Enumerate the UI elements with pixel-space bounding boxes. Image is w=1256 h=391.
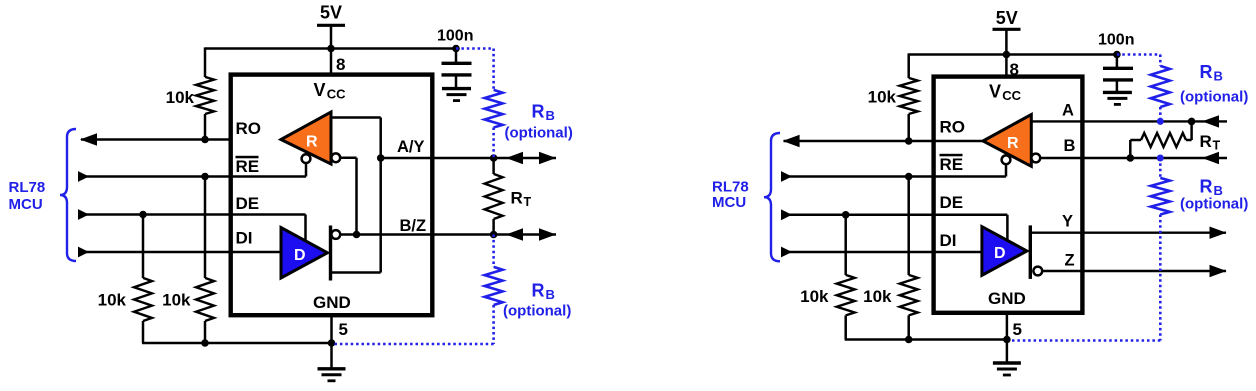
svg-text:DE: DE [940,193,964,212]
svg-text:10k: 10k [162,290,191,309]
svg-text:(optional): (optional) [505,125,573,142]
svg-text:5: 5 [339,320,348,339]
svg-text:RL78: RL78 [9,179,46,196]
svg-text:CC: CC [1002,88,1021,103]
svg-text:CC: CC [327,86,346,101]
svg-text:R: R [1200,62,1213,82]
svg-text:10k: 10k [863,287,892,306]
svg-text:T: T [1213,138,1221,152]
svg-text:R: R [1200,132,1212,151]
svg-text:RO: RO [236,119,262,138]
svg-text:DI: DI [940,231,957,250]
svg-text:D: D [294,247,306,264]
svg-text:RO: RO [940,117,966,136]
svg-text:A/Y: A/Y [397,138,425,156]
svg-text:MCU: MCU [9,196,43,213]
svg-text:B: B [1214,69,1223,84]
svg-text:DE: DE [236,194,260,213]
svg-text:GND: GND [988,289,1026,308]
svg-text:A: A [1062,101,1074,119]
svg-text:B: B [546,287,555,302]
svg-text:(optional): (optional) [1180,195,1248,212]
svg-text:RE: RE [236,157,260,176]
svg-text:MCU: MCU [712,194,746,211]
svg-text:V: V [314,80,326,100]
svg-text:R: R [306,133,318,150]
svg-text:5V: 5V [320,3,342,23]
svg-text:B/Z: B/Z [400,217,427,235]
svg-text:D: D [994,245,1006,262]
svg-text:B: B [546,108,555,123]
svg-text:DI: DI [236,228,253,247]
svg-text:10k: 10k [98,290,127,309]
svg-text:10k: 10k [868,87,897,106]
svg-text:R: R [532,102,545,122]
svg-text:T: T [524,195,532,209]
svg-text:Z: Z [1065,251,1075,269]
svg-text:RL78: RL78 [712,179,749,196]
svg-text:5V: 5V [996,8,1018,28]
svg-text:RE: RE [940,155,964,174]
svg-text:V: V [989,81,1001,101]
svg-text:10k: 10k [166,88,195,107]
svg-text:100n: 100n [437,27,473,44]
svg-text:R: R [511,188,523,207]
svg-text:B: B [1064,137,1076,155]
svg-text:GND: GND [313,293,351,312]
svg-text:Y: Y [1062,213,1073,231]
svg-text:R: R [1200,177,1213,197]
svg-text:8: 8 [336,55,345,74]
svg-text:R: R [532,281,545,301]
svg-text:(optional): (optional) [1180,89,1248,106]
svg-text:100n: 100n [1098,31,1134,48]
svg-text:(optional): (optional) [503,303,571,320]
svg-text:R: R [1007,135,1019,152]
svg-text:10k: 10k [800,287,829,306]
svg-text:5: 5 [1013,320,1022,339]
